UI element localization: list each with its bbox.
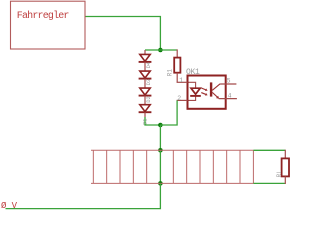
diode D2 — [139, 88, 152, 104]
svg-text:RL: RL — [276, 170, 283, 178]
wire junction to diode chain top — [145, 49, 160, 51]
frame Fahrregler box — [11, 1, 86, 49]
svg-text:R1: R1 — [167, 69, 174, 77]
OK1 phototransistor — [210, 82, 212, 96]
node lower junction — [158, 123, 163, 128]
node track top junction — [158, 148, 163, 153]
wire through track — [159, 150, 161, 183]
optocoupler OK1 — [177, 68, 237, 109]
wire net from Fahrregler to top junction — [86, 17, 161, 51]
wire junction to R1 lead — [160, 49, 176, 51]
wire track bottom rail to RL — [253, 182, 285, 184]
svg-text:D3: D3 — [146, 79, 152, 85]
svg-text:1: 1 — [179, 77, 183, 84]
pin 2 stub — [177, 99, 188, 101]
resistor R1 — [167, 49, 181, 82]
svg-text:4: 4 — [228, 93, 232, 100]
svg-text:5: 5 — [227, 78, 231, 85]
svg-text:D4: D4 — [146, 62, 152, 68]
wire 0V net — [6, 183, 161, 208]
diode D3 — [139, 71, 152, 88]
svg-text:2: 2 — [177, 95, 181, 102]
svg-text:Fahrregler: Fahrregler — [17, 10, 70, 22]
pin 4 stub — [219, 98, 237, 100]
wire lower junction down to track — [159, 125, 161, 150]
OK1 body — [188, 76, 226, 109]
wire pin2 to lower junction — [160, 100, 177, 125]
track ladder rails — [91, 150, 253, 183]
OK1 light arrows — [201, 88, 206, 95]
wire track top rail to RL — [253, 149, 285, 151]
diode D1 — [139, 105, 152, 117]
OK1 internal led wiring — [189, 82, 196, 88]
diode D4 — [139, 50, 152, 71]
track rungs — [92, 150, 94, 183]
wire diode chain bottom to lower junction — [145, 117, 160, 125]
node track bottom junction — [158, 181, 163, 186]
svg-text:D2: D2 — [146, 96, 152, 102]
svg-text:Ø V: Ø V — [1, 201, 18, 211]
node top junction — [158, 48, 163, 53]
pin 5 stub — [220, 83, 236, 85]
OK1 internal LED — [190, 88, 201, 96]
pin 1 stub — [177, 81, 188, 83]
resistor RL — [276, 150, 289, 184]
